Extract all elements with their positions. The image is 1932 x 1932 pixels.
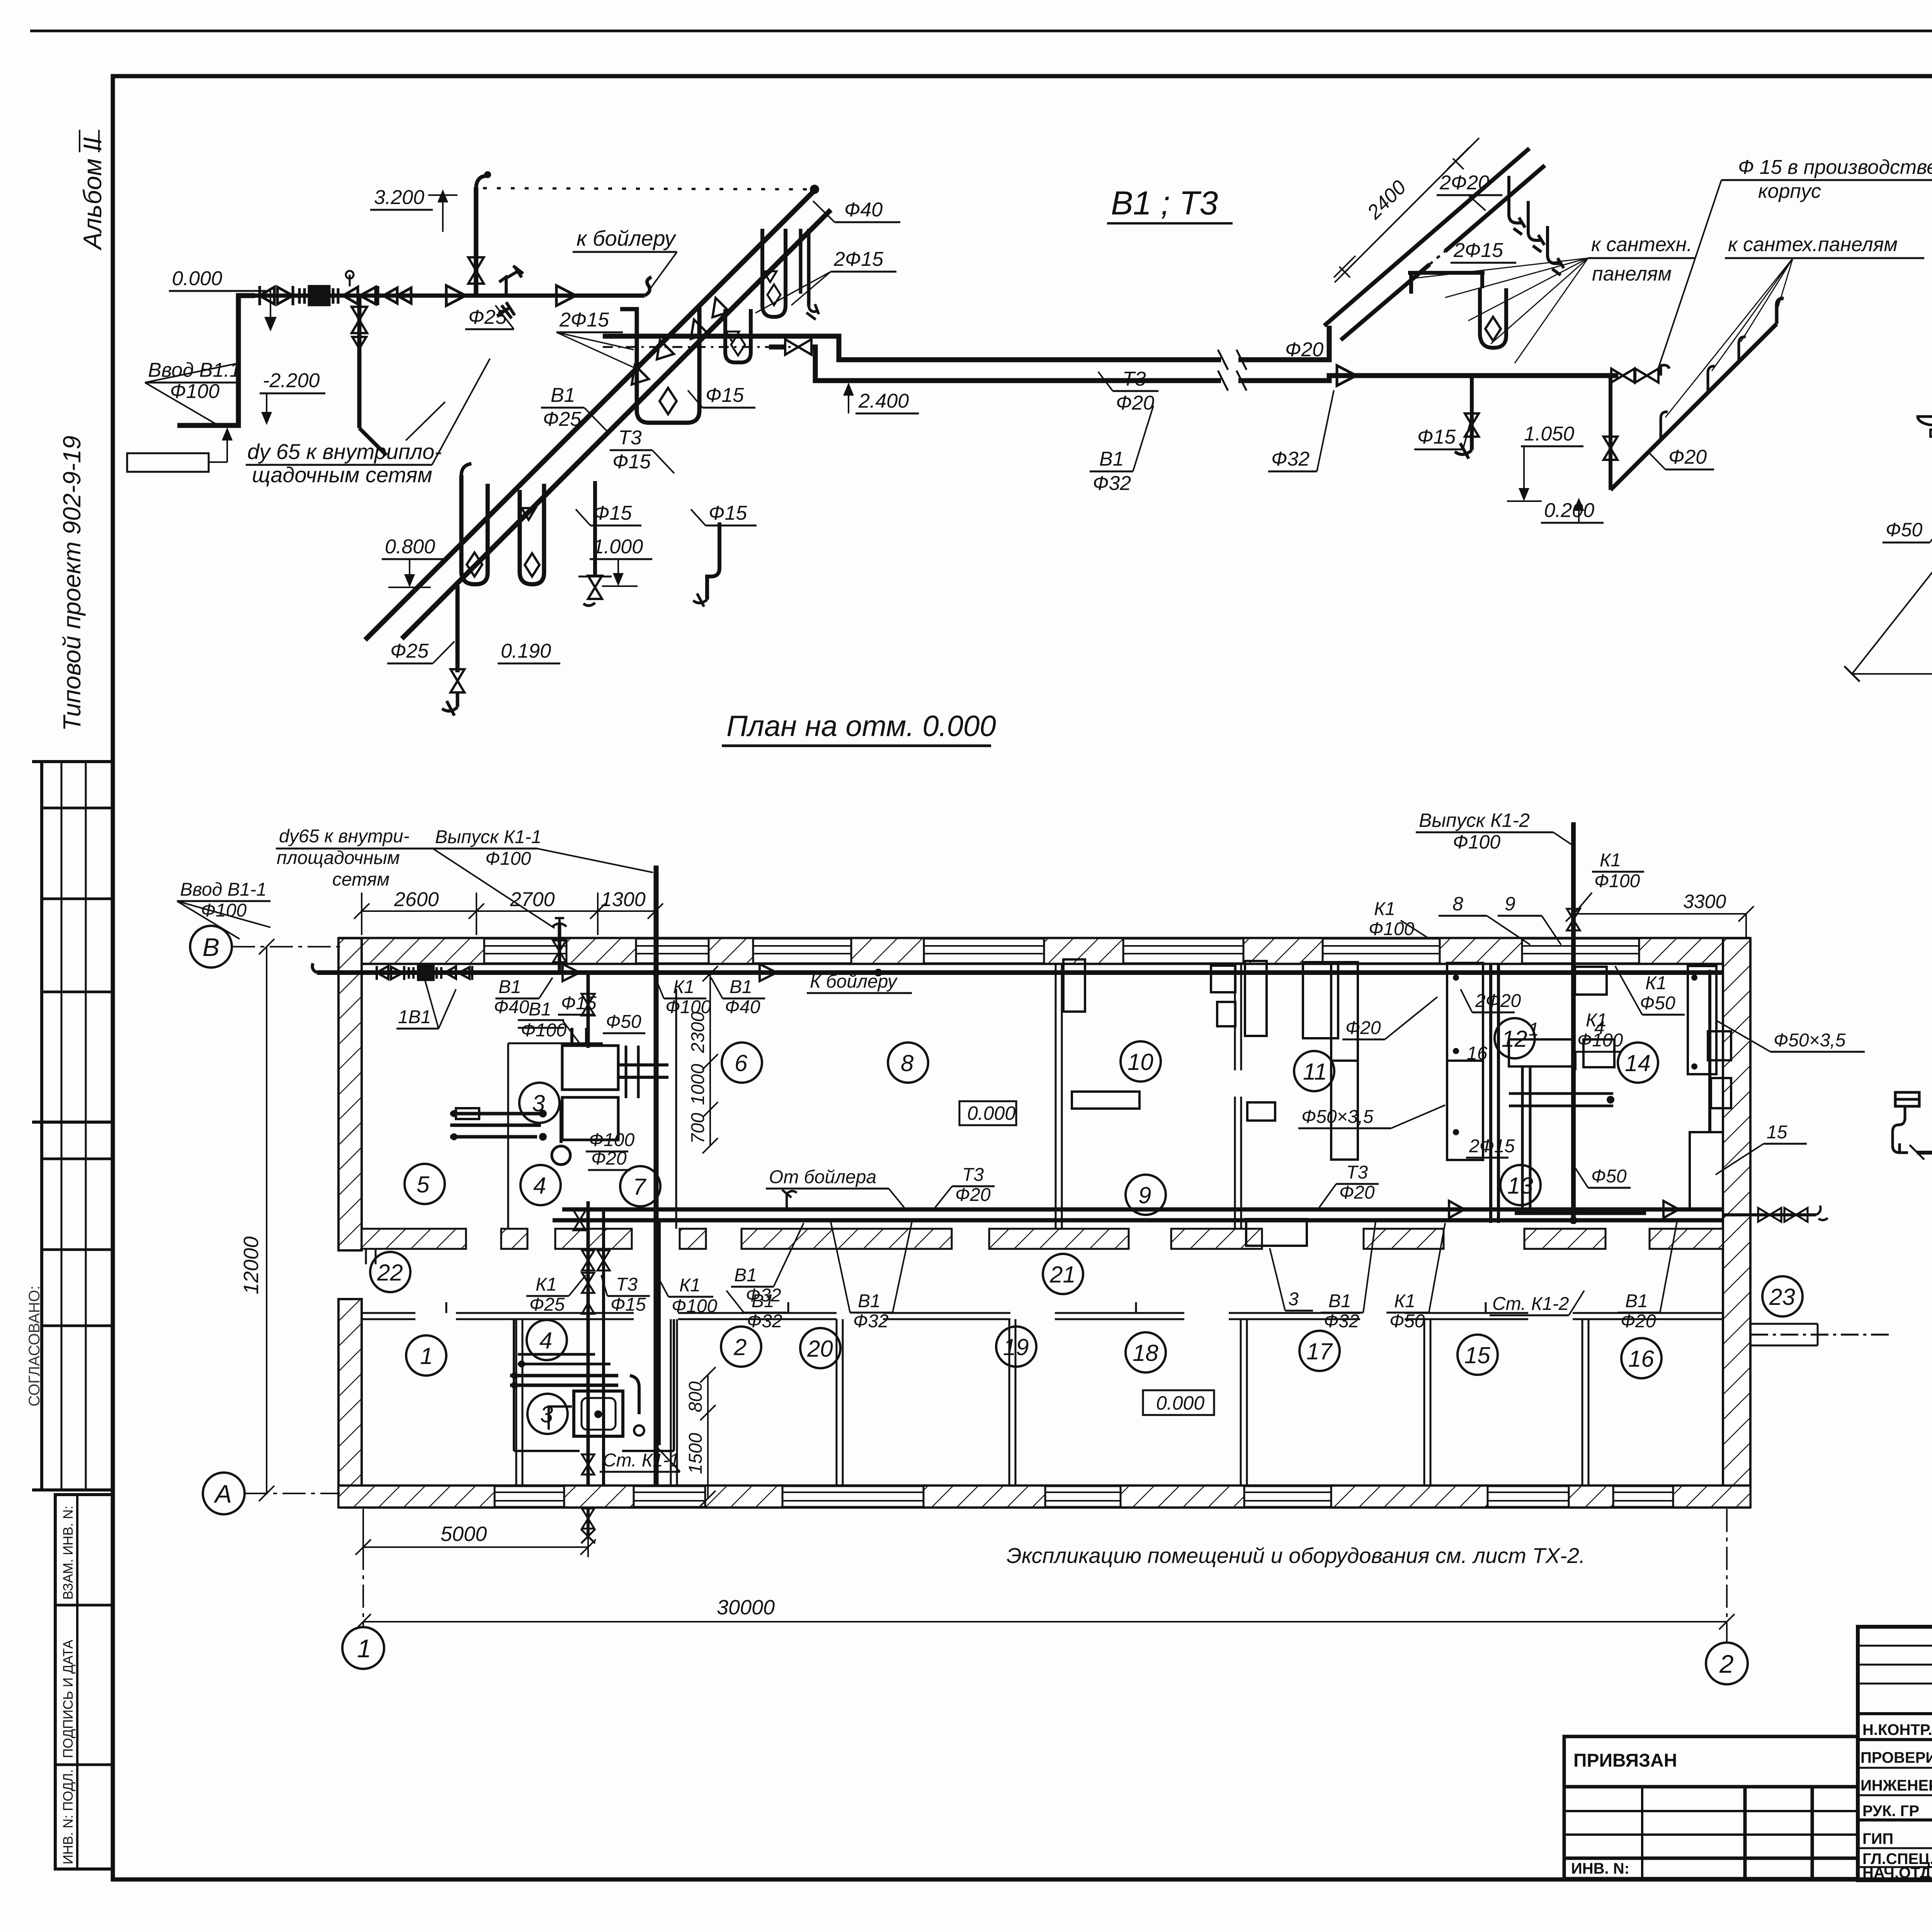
channel protrusion right (1750, 1324, 1889, 1345)
sanitary node 2 (bottom) (510, 1319, 674, 1451)
U riser group B (725, 309, 751, 362)
svg-text:к сантех.панелям: к сантех.панелям (1728, 233, 1898, 256)
svg-text:9: 9 (1138, 1182, 1151, 1208)
svg-text:2300: 2300 (688, 1012, 708, 1053)
pipes exit right wall (1723, 1213, 1816, 1216)
svg-text:Ф50×3,5: Ф50×3,5 (1774, 1030, 1846, 1051)
svg-text:Ф100: Ф100 (170, 380, 219, 403)
bottom dimensions (355, 1509, 1735, 1629)
svg-text:Ф50: Ф50 (1591, 1166, 1627, 1187)
dotted level lines (703, 334, 803, 336)
bottom left run (1917, 1151, 1932, 1155)
svg-text:Ф20: Ф20 (955, 1185, 991, 1205)
svg-text:Н.КОНТР.: Н.КОНТР. (1862, 1721, 1932, 1738)
svg-text:Ввод В1.1: Ввод В1.1 (148, 359, 241, 381)
svg-text:2Ф15: 2Ф15 (833, 248, 884, 270)
G3 B1;T3 axonometric (127, 138, 1932, 716)
T3 and V1 long pipes (562, 1207, 1723, 1212)
svg-text:Т3: Т3 (1346, 1162, 1368, 1183)
svg-text:Ф25: Ф25 (390, 640, 429, 662)
svg-text:В: В (202, 933, 219, 961)
risers trio near node1 (587, 1201, 590, 1486)
svg-text:8: 8 (1452, 893, 1463, 915)
svg-text:Ф100: Ф100 (589, 1130, 635, 1150)
svg-text:2700: 2700 (510, 888, 555, 911)
svg-text:К1: К1 (1586, 1010, 1607, 1031)
T3 step from cluster (603, 336, 1221, 360)
svg-text:19: 19 (1003, 1334, 1029, 1360)
plan labels (180, 826, 1846, 1471)
axis circles (190, 926, 1748, 1684)
svg-text:1: 1 (357, 1634, 371, 1663)
svg-text:Экспликацию помещений и обо: Экспликацию помещений и оборудования см.… (1007, 1543, 1585, 1568)
svg-text:0.000: 0.000 (172, 267, 222, 290)
right drop 0.200 and diagonal (1609, 376, 1612, 490)
left wall lower (338, 1299, 362, 1507)
svg-text:5: 5 (417, 1172, 430, 1197)
svg-text:В1 ; Т3: В1 ; Т3 (1111, 185, 1218, 222)
svg-text:щадочным сетям: щадочным сетям (252, 463, 432, 487)
svg-text:ПРОВЕРИЛ.: ПРОВЕРИЛ. (1861, 1749, 1932, 1766)
svg-text:А: А (213, 1480, 232, 1508)
svg-text:От бойлера: От бойлера (769, 1167, 876, 1187)
svg-text:-2.200: -2.200 (263, 369, 320, 392)
svg-text:К1: К1 (1374, 899, 1395, 919)
svg-text:2Ф20: 2Ф20 (1439, 172, 1489, 194)
bottom dimensions 2500 500 (1852, 673, 1932, 675)
B1 valve and step (785, 339, 811, 355)
valve pair on diagonal 1 (632, 340, 674, 384)
valves on B1 right (1611, 369, 1658, 383)
svg-text:В1: В1 (551, 384, 575, 406)
T3 continue right (1238, 326, 1329, 360)
svg-text:Выпуск К1-2: Выпуск К1-2 (1419, 810, 1530, 831)
svg-text:0.190: 0.190 (501, 640, 551, 662)
svg-text:2Ф15: 2Ф15 (1453, 239, 1503, 262)
U riser group C (762, 229, 786, 317)
sheet outer thin border top (30, 30, 1932, 32)
svg-text:22: 22 (377, 1260, 403, 1286)
svg-text:Ф20: Ф20 (1621, 1311, 1656, 1332)
room number circles upper (370, 1018, 1803, 1434)
svg-text:Ф100: Ф100 (201, 900, 247, 921)
upper room equipment (1063, 959, 1358, 1246)
svg-text:Ф50: Ф50 (1389, 1311, 1425, 1332)
svg-text:dy65 к внутри-: dy65 к внутри- (279, 826, 410, 847)
svg-text:Ф50: Ф50 (1886, 519, 1923, 541)
svg-text:3: 3 (532, 1090, 545, 1116)
svg-text:1: 1 (420, 1343, 433, 1369)
svg-text:К1: К1 (1600, 850, 1621, 871)
main diagonal B1 f25 (365, 192, 813, 640)
G5 K1 bottom axonometric (1893, 685, 1932, 1264)
wire inlet step pipe (177, 296, 255, 425)
G2 title block (1564, 1627, 1932, 1925)
svg-text:Ф50: Ф50 (1640, 993, 1675, 1014)
V1 f100 drop to node (587, 973, 590, 1048)
svg-text:Ф32: Ф32 (853, 1311, 889, 1332)
svg-text:В1: В1 (1625, 1291, 1648, 1311)
window double lines top (484, 946, 1639, 954)
svg-text:НАЧ.ОТД.: НАЧ.ОТД. (1862, 1864, 1932, 1881)
svg-text:к бойлеру: к бойлеру (577, 226, 677, 250)
svg-text:1500: 1500 (685, 1433, 706, 1474)
right wall (1723, 938, 1750, 1507)
svg-text:Ф15: Ф15 (561, 993, 597, 1014)
svg-text:Ф15: Ф15 (612, 451, 651, 473)
drop f15 with faucet (1470, 376, 1474, 450)
dotted ceiling line 3.200 (483, 188, 811, 189)
svg-text:2Ф15: 2Ф15 (1469, 1136, 1515, 1156)
svg-text:Ф 15 в производственный: Ф 15 в производственный (1738, 156, 1932, 179)
top dimension row (354, 893, 663, 935)
svg-text:6: 6 (735, 1050, 748, 1076)
bottom wall band (338, 1485, 1750, 1487)
svg-text:3300: 3300 (1683, 891, 1726, 912)
svg-text:Т3: Т3 (1122, 368, 1146, 390)
svg-text:2600: 2600 (394, 888, 439, 911)
svg-text:ГИП: ГИП (1862, 1830, 1893, 1847)
svg-text:2: 2 (733, 1334, 747, 1360)
flow arrow 2 (556, 286, 576, 306)
svg-text:21: 21 (1049, 1262, 1076, 1287)
svg-text:Ф40: Ф40 (494, 997, 529, 1017)
svg-text:3.200: 3.200 (374, 186, 424, 209)
svg-text:15: 15 (1464, 1342, 1490, 1368)
svg-text:Ф15: Ф15 (611, 1294, 646, 1315)
svg-text:15: 15 (1767, 1122, 1787, 1143)
svg-text:В1: В1 (498, 977, 521, 997)
valve on riser (468, 257, 484, 284)
svg-text:ВЗАМ. ИНВ. N:: ВЗАМ. ИНВ. N: (61, 1506, 76, 1600)
lower left stamp column (55, 1495, 113, 1869)
svg-text:3: 3 (1288, 1289, 1299, 1310)
svg-text:16: 16 (1467, 1043, 1488, 1064)
svg-text:11: 11 (1303, 1059, 1327, 1085)
svg-text:1В1: 1В1 (398, 1007, 431, 1027)
vertical dim 2300/1000/700 (702, 966, 718, 1153)
svg-text:План на отм. 0.000: План на отм. 0.000 (726, 710, 996, 743)
dy65 drop with valves (357, 296, 362, 428)
svg-text:Т3: Т3 (618, 427, 642, 449)
svg-text:Ф20: Ф20 (1339, 1182, 1375, 1203)
svg-text:2Ф15: 2Ф15 (559, 309, 609, 331)
svg-text:ПОДПИСЬ И ДАТА: ПОДПИСЬ И ДАТА (61, 1639, 76, 1758)
svg-text:Ф100: Ф100 (1453, 831, 1500, 853)
svg-text:ПРИВЯЗАН: ПРИВЯЗАН (1573, 1750, 1677, 1771)
svg-text:К1: К1 (679, 1275, 701, 1296)
riser 3.200 (474, 187, 478, 296)
sanitary node 3 (right, rooms 12/13) (1447, 822, 1731, 1224)
signature table (1858, 1627, 1932, 1880)
svg-text:В1: В1 (858, 1291, 881, 1311)
svg-text:30000: 30000 (717, 1596, 775, 1619)
svg-text:0.000: 0.000 (967, 1102, 1015, 1124)
svg-text:Ф32: Ф32 (747, 1311, 782, 1332)
svg-text:Ф32: Ф32 (1271, 448, 1310, 470)
left wall upper (338, 938, 362, 1250)
svg-text:10: 10 (1128, 1049, 1153, 1075)
G6 floor plan (177, 710, 1889, 1684)
svg-text:1000: 1000 (688, 1064, 708, 1105)
svg-text:корпус: корпус (1758, 180, 1821, 202)
label underlines and leaders (177, 849, 1865, 1472)
svg-text:dy 65 к внутрипло-: dy 65 к внутрипло- (247, 439, 442, 464)
pipe end hook to boiler (645, 277, 651, 296)
svg-text:Ввод В1-1: Ввод В1-1 (180, 879, 267, 900)
bottom room partitions (516, 1319, 1588, 1486)
svg-text:3: 3 (540, 1401, 553, 1427)
svg-text:К1: К1 (1394, 1291, 1415, 1311)
branch up through wall (558, 923, 561, 973)
svg-text:Выпуск К1-1: Выпуск К1-1 (435, 827, 541, 847)
lower riser group: U2 (520, 484, 544, 584)
svg-text:5000: 5000 (440, 1522, 487, 1546)
right cluster diagonals (1324, 148, 1529, 326)
lower hook riser right (707, 522, 719, 600)
svg-text:Ф100: Ф100 (672, 1296, 718, 1316)
svg-text:23: 23 (1769, 1284, 1795, 1310)
riser pair D with faucet (799, 229, 803, 294)
svg-text:Альбом II: Альбом II (78, 137, 107, 251)
svg-text:1300: 1300 (601, 888, 646, 911)
svg-text:Ф40: Ф40 (725, 997, 760, 1017)
svg-text:4: 4 (533, 1173, 546, 1199)
main diagonal T3 f15 (402, 210, 831, 639)
svg-text:16: 16 (1628, 1346, 1654, 1372)
svg-text:Ф32: Ф32 (1324, 1311, 1359, 1332)
svg-text:18: 18 (1133, 1340, 1158, 1366)
privyazan table (1564, 1736, 1858, 1879)
corridor upper partition hatched (362, 1229, 466, 1249)
G1 margin group (26, 130, 113, 1869)
2400 dimension diagonal (1344, 148, 1469, 273)
svg-text:В1: В1 (752, 1291, 774, 1311)
svg-text:Ф15: Ф15 (594, 502, 632, 524)
svg-text:2.400: 2.400 (858, 390, 909, 412)
svg-text:К1: К1 (1645, 973, 1667, 993)
svg-text:Ф40: Ф40 (844, 199, 883, 221)
upper left attachment table (32, 760, 113, 763)
svg-text:12: 12 (1502, 1026, 1527, 1052)
svg-text:Ф100: Ф100 (485, 849, 531, 869)
svg-text:панелям: панелям (1592, 263, 1672, 285)
svg-text:1.050: 1.050 (1524, 423, 1574, 445)
svg-text:В1: В1 (730, 977, 752, 997)
svg-text:2: 2 (1719, 1650, 1734, 1678)
svg-text:Ст. К1-2: Ст. К1-2 (1492, 1294, 1569, 1314)
valve pair on diagonal 2 (691, 298, 730, 339)
svg-text:14: 14 (1625, 1050, 1651, 1076)
axis lines (232, 939, 1727, 1643)
svg-text:4: 4 (539, 1328, 552, 1354)
vertical dim 800/1500 (700, 1367, 716, 1506)
svg-text:Ф15: Ф15 (1417, 426, 1456, 448)
svg-text:0.800: 0.800 (385, 536, 435, 558)
svg-text:12000: 12000 (240, 1236, 263, 1294)
svg-text:Ф100: Ф100 (665, 997, 711, 1017)
svg-text:8: 8 (901, 1050, 914, 1076)
svg-text:Ф25: Ф25 (529, 1294, 565, 1315)
svg-text:9: 9 (1505, 893, 1515, 915)
svg-text:В1: В1 (1328, 1291, 1351, 1311)
svg-text:Ф20: Ф20 (1116, 392, 1154, 414)
svg-text:Ф25: Ф25 (468, 306, 507, 328)
lower riser group: U1 (461, 475, 488, 584)
wall hatch segments top (338, 938, 484, 964)
svg-text:700: 700 (688, 1113, 708, 1144)
B1 continue right (1238, 376, 1618, 381)
svg-text:площадочным: площадочным (277, 848, 400, 868)
faucet pair near tee (499, 266, 523, 296)
svg-text:800: 800 (685, 1381, 706, 1412)
sanitary node 1 equipment (450, 1020, 668, 1165)
far left sink (1895, 1092, 1919, 1106)
blank reference box (127, 453, 209, 472)
svg-text:7: 7 (633, 1174, 647, 1200)
top risers and faucets (1509, 176, 1525, 235)
svg-text:В1: В1 (734, 1265, 757, 1286)
svg-text:В1: В1 (1099, 448, 1124, 470)
break marks (1218, 350, 1247, 391)
lower single riser f15 (593, 481, 597, 577)
svg-text:Ф100: Ф100 (1577, 1030, 1623, 1051)
svg-text:В1: В1 (529, 999, 551, 1020)
svg-text:1.000: 1.000 (593, 536, 643, 558)
svg-text:ИНЖЕНЕР: ИНЖЕНЕР (1861, 1777, 1932, 1794)
svg-text:Ф32: Ф32 (1093, 472, 1131, 495)
svg-text:Ф25: Ф25 (543, 408, 582, 430)
svg-text:17: 17 (1306, 1338, 1333, 1364)
svg-text:РУК. ГР: РУК. ГР (1862, 1803, 1919, 1820)
svg-text:Ф15: Ф15 (709, 502, 747, 524)
svg-text:К1: К1 (536, 1274, 557, 1295)
svg-text:Типовой проект 902-9-19: Типовой проект 902-9-19 (58, 435, 86, 731)
svg-text:ИНВ. N: ПОДЛ.: ИНВ. N: ПОДЛ. (61, 1769, 76, 1864)
svg-text:Ф50×3,5: Ф50×3,5 (1301, 1107, 1374, 1127)
svg-text:0.000: 0.000 (1156, 1392, 1204, 1414)
small risers on right diagonal (1661, 412, 1668, 440)
wire main horizontal B1 (255, 294, 645, 298)
svg-text:Ф20: Ф20 (1285, 338, 1323, 361)
svg-text:к сантехн.: к сантехн. (1591, 233, 1692, 256)
lower horizontal of right cluster (1408, 273, 1485, 294)
svg-text:0.200: 0.200 (1544, 499, 1594, 522)
svg-text:Ф20: Ф20 (1345, 1018, 1381, 1038)
svg-text:сетям: сетям (332, 869, 389, 890)
bottom drop f25 (456, 585, 460, 672)
svg-text:К1: К1 (673, 977, 694, 997)
svg-text:Ф50: Ф50 (606, 1012, 641, 1032)
upper zone partitions (508, 964, 1241, 1229)
svg-text:Т3: Т3 (616, 1274, 638, 1295)
corridor lower partition lines (362, 1302, 1723, 1319)
svg-text:Ф100: Ф100 (1369, 919, 1415, 939)
svg-text:Ст. К1-1: Ст. К1-1 (603, 1450, 679, 1471)
flow arrow (446, 286, 466, 306)
svg-text:Т3: Т3 (962, 1165, 984, 1185)
0.000 boxes (959, 1101, 1016, 1125)
K1-1 stack (654, 866, 659, 1486)
inlet valve assembly on plan (377, 966, 472, 980)
B1 main pipe top (317, 970, 1723, 975)
svg-text:2Ф20: 2Ф20 (1475, 991, 1521, 1011)
valve water-meter assembly (260, 271, 411, 305)
svg-text:ИНВ. N:: ИНВ. N: (1571, 1860, 1629, 1877)
U riser group A (620, 305, 699, 423)
svg-text:Ф100: Ф100 (1594, 871, 1640, 891)
svg-text:20: 20 (807, 1336, 833, 1362)
top wall band (338, 937, 1750, 940)
G4 K1 top axonometric (1844, 165, 1932, 682)
svg-text:Ф20: Ф20 (1668, 446, 1707, 468)
lower-left branch (1918, 417, 1932, 425)
svg-text:К бойлеру: К бойлеру (810, 971, 898, 992)
svg-text:Ф100: Ф100 (521, 1020, 567, 1041)
svg-text:13: 13 (1507, 1173, 1533, 1199)
svg-text:Ф15: Ф15 (706, 384, 744, 406)
svg-text:1: 1 (1529, 1019, 1539, 1040)
